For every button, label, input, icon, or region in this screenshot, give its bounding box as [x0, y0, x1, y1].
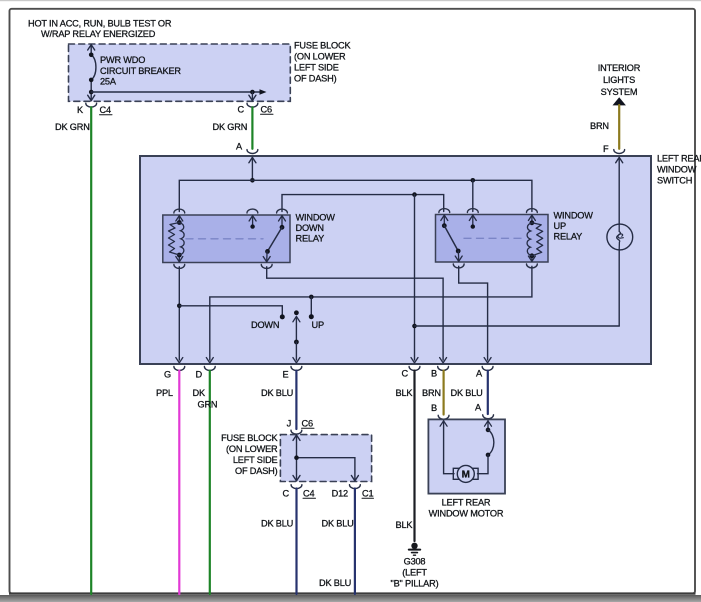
wire: drop to C6 connector — [249, 92, 256, 101]
svg-text:G: G — [164, 370, 171, 380]
connector K / C4 — [86, 103, 97, 107]
left rear window motor box — [428, 419, 505, 493]
junction: lamp return — [412, 324, 417, 329]
connector F — [614, 150, 625, 154]
wire PPL (G to off-page) — [178, 371, 180, 594]
svg-text:B: B — [431, 369, 437, 379]
motor entry arrows — [440, 421, 491, 426]
svg-text:DK GRN: DK GRN — [213, 122, 248, 132]
wire DK GRN (C6 to switch A) — [251, 107, 253, 149]
wire + contact UP — [310, 297, 312, 315]
svg-text:DOWN: DOWN — [296, 223, 324, 233]
window down relay box — [163, 215, 290, 263]
wire BRN (F to interior lights) — [618, 105, 620, 149]
svg-text:WINDOW: WINDOW — [657, 165, 697, 175]
down relay connector arcs — [174, 209, 288, 268]
svg-text:(LEFT: (LEFT — [402, 568, 427, 578]
svg-text:WINDOW: WINDOW — [296, 213, 336, 223]
up relay pin arrows — [441, 215, 536, 261]
svg-text:25A: 25A — [100, 77, 117, 87]
svg-text:FUSE BLOCK: FUSE BLOCK — [294, 41, 351, 51]
svg-text:C4: C4 — [100, 105, 111, 115]
svg-text:DK: DK — [193, 388, 206, 398]
wire inside lower fuse block — [293, 435, 358, 481]
svg-text:W/RAP RELAY ENERGIZED: W/RAP RELAY ENERGIZED — [41, 29, 156, 39]
wire DK GRN (D to off-page) — [209, 371, 211, 594]
svg-text:LEFT SIDE: LEFT SIDE — [294, 63, 339, 73]
connector C / C4 — [291, 485, 302, 489]
svg-text:SYSTEM: SYSTEM — [601, 87, 638, 97]
svg-text:D: D — [196, 370, 203, 380]
lamp (switch illumination) — [607, 224, 633, 250]
svg-text:DK GRN: DK GRN — [55, 122, 90, 132]
svg-text:K: K — [77, 105, 84, 115]
svg-text:FUSE BLOCK: FUSE BLOCK — [221, 433, 278, 443]
wire: coil feed bus — [179, 180, 532, 211]
switch arm E — [294, 310, 299, 315]
svg-text:SWITCH: SWITCH — [657, 176, 692, 186]
svg-text:PWR WDO: PWR WDO — [100, 55, 145, 65]
motor internal wire B side — [444, 421, 454, 474]
svg-text:OF DASH): OF DASH) — [235, 466, 278, 476]
up relay feed stub — [472, 215, 474, 227]
wire BRN (B to motor) — [443, 371, 445, 415]
circuit breaker PWR WDO 25A — [88, 45, 96, 101]
svg-text:E: E — [283, 370, 289, 380]
svg-text:DK BLU: DK BLU — [451, 388, 483, 398]
down relay coil — [178, 216, 180, 223]
down relay pin arrows — [176, 216, 286, 262]
svg-text:PPL: PPL — [156, 388, 173, 398]
wire: C ground drop — [414, 195, 416, 360]
connector motor B — [438, 415, 449, 419]
wire: down coil return to G — [178, 267, 180, 360]
motor M1 — [453, 468, 459, 479]
svg-text:RELAY: RELAY — [296, 234, 325, 244]
svg-text:A: A — [475, 403, 482, 413]
svg-text:C1: C1 — [362, 489, 373, 499]
svg-text:D12: D12 — [332, 489, 348, 499]
wire DK GRN (K C4 to off-page bottom) — [90, 107, 92, 594]
wire: breaker output to C6 feed — [91, 91, 260, 93]
wire DK BLU (C4 to off-page) — [295, 489, 297, 595]
down relay mechanical link — [186, 238, 263, 240]
svg-text:DK BLU: DK BLU — [261, 519, 293, 529]
svg-text:RELAY: RELAY — [554, 232, 583, 242]
svg-text:DK BLU: DK BLU — [261, 388, 293, 398]
junction: up relay coil stub feed — [471, 178, 476, 183]
wire DK BLU (C1 to off-page) — [354, 489, 356, 595]
svg-text:HOT IN ACC, RUN, BULB TEST OR: HOT IN ACC, RUN, BULB TEST OR — [28, 19, 172, 29]
wire: A entry — [249, 157, 256, 180]
svg-text:DOWN: DOWN — [251, 320, 279, 330]
up relay connector arcs — [439, 209, 537, 268]
wire BLK (C to ground) — [413, 371, 415, 541]
wire: down relay output to B — [267, 267, 443, 360]
svg-text:F: F — [603, 144, 609, 154]
svg-text:UP: UP — [554, 221, 566, 231]
wire: up relay output to A — [459, 266, 488, 360]
connector C / C6 — [247, 103, 258, 107]
down relay switch — [281, 216, 283, 228]
junction on C6 feed — [250, 90, 255, 95]
junction: UP contact tap — [309, 295, 314, 300]
svg-text:CIRCUIT BREAKER: CIRCUIT BREAKER — [100, 66, 181, 76]
svg-text:(ON LOWER: (ON LOWER — [226, 444, 278, 454]
svg-text:LEFT REAR: LEFT REAR — [442, 498, 491, 508]
svg-text:(ON LOWER: (ON LOWER — [294, 52, 346, 62]
fuse block FB2 (lower) — [280, 435, 371, 482]
svg-text:LEFT SIDE: LEFT SIDE — [233, 455, 278, 465]
svg-text:A: A — [476, 369, 483, 379]
svg-text:BLK: BLK — [396, 520, 414, 530]
up relay switch — [443, 215, 445, 226]
svg-text:C: C — [402, 369, 409, 379]
wire DK BLU (E to J C6) — [295, 371, 297, 429]
left rear window switch box — [140, 156, 651, 364]
ground G308 — [411, 543, 417, 549]
svg-text:LEFT REAR: LEFT REAR — [657, 154, 701, 164]
off-page arrow to interior lights — [613, 97, 626, 105]
svg-text:C: C — [283, 489, 290, 499]
svg-text:M: M — [462, 470, 470, 481]
connector A — [247, 150, 258, 154]
junction: ground bus tap — [412, 192, 417, 197]
wire DK BLU (A to motor) — [487, 371, 489, 414]
svg-text:J: J — [287, 419, 291, 429]
wire + contact DOWN — [179, 306, 282, 315]
svg-text:C4: C4 — [303, 489, 314, 499]
svg-text:"B" PILLAR): "B" PILLAR) — [391, 579, 439, 589]
wire: stub feed drop — [472, 180, 474, 211]
svg-text:BLK: BLK — [396, 388, 414, 398]
window up relay box — [436, 215, 549, 263]
down relay feed stub — [252, 216, 254, 227]
lamp wire from F — [415, 157, 623, 326]
svg-text:DK BLU: DK BLU — [319, 578, 351, 588]
svg-text:WINDOW MOTOR: WINDOW MOTOR — [429, 509, 504, 519]
svg-text:A: A — [236, 142, 243, 152]
svg-text:DK BLU: DK BLU — [322, 519, 354, 529]
svg-text:OF DASH): OF DASH) — [294, 74, 337, 84]
connector motor A — [483, 415, 494, 419]
up relay coil — [531, 215, 533, 223]
up relay mechanical link — [464, 237, 526, 239]
svg-text:WINDOW: WINDOW — [554, 211, 594, 221]
motor internal wire A side with thermal breaker — [487, 421, 489, 430]
svg-text:BRN: BRN — [590, 121, 609, 131]
wire: up coil return bus to D — [210, 266, 532, 360]
wire: arm to E — [295, 342, 297, 360]
svg-text:LIGHTS: LIGHTS — [603, 75, 635, 85]
fuse block FB1 (upper) — [69, 44, 291, 101]
svg-text:C6: C6 — [302, 419, 313, 429]
junction: DOWN contact tap — [177, 304, 182, 309]
svg-text:BRN: BRN — [422, 388, 441, 398]
bottom edge connector cups — [174, 367, 493, 371]
svg-text:C6: C6 — [261, 105, 272, 115]
svg-text:B: B — [431, 403, 437, 413]
svg-text:GRN: GRN — [198, 400, 218, 410]
connector D12 / C1 — [350, 485, 361, 489]
svg-text:G308: G308 — [404, 557, 426, 567]
junction A feed — [250, 178, 255, 183]
wire: contact feed bus — [282, 195, 444, 212]
bottom edge exit arrows — [176, 358, 491, 363]
svg-text:UP: UP — [312, 320, 324, 330]
svg-text:INTERIOR: INTERIOR — [598, 63, 641, 73]
svg-text:C: C — [238, 105, 245, 115]
junction in lower fuse block — [294, 455, 299, 460]
